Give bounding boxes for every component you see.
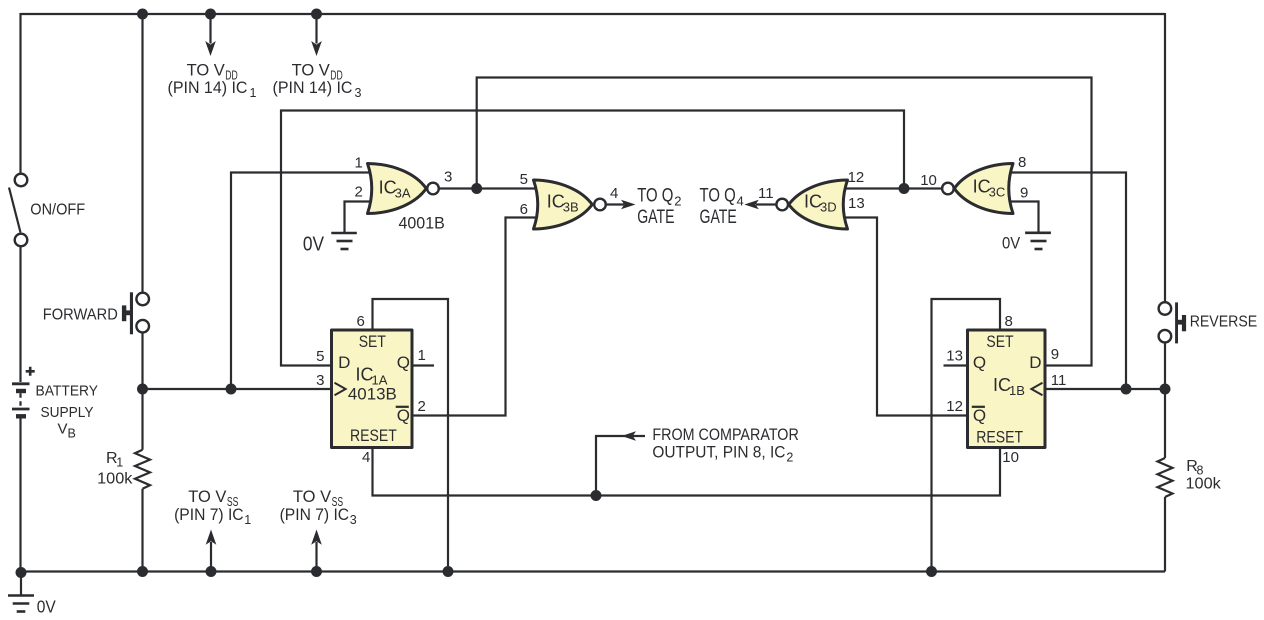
label IC3B [547,192,579,215]
label TO VDD (PIN 14) IC3 [273,60,362,100]
svg-text:1: 1 [418,347,426,364]
ground bottom-left [8,573,34,612]
node IC3C out [899,183,910,194]
svg-text:2: 2 [786,451,793,465]
svg-text:6: 6 [520,201,528,218]
svg-text:3: 3 [444,169,452,186]
wire left rail lower [19,419,21,572]
svg-text:V: V [58,420,68,437]
node clk-B x=1126 [1121,384,1132,395]
wire IC1B Q stub [944,364,969,366]
arrow to Q2 gate [607,200,636,210]
svg-text:TO V: TO V [292,60,331,79]
svg-text:3C: 3C [989,185,1006,200]
wire IC3A out cross line [477,78,1092,366]
label IC3D [804,192,837,215]
svg-text:TO V: TO V [187,60,226,79]
svg-text:Q: Q [397,353,410,372]
wire D-A to cross line [281,111,904,366]
svg-text:2: 2 [674,194,681,209]
svg-text:1: 1 [355,155,363,172]
svg-text:SET: SET [359,332,386,351]
clock triangle IC1B [1031,383,1042,396]
svg-text:4001B: 4001B [399,214,445,233]
svg-text:4: 4 [610,185,618,202]
svg-text:SUPPLY: SUPPLY [41,404,94,421]
svg-text:13: 13 [848,195,865,212]
label TO VSS (PIN 7) IC3 [280,487,357,527]
svg-text:1B: 1B [1009,383,1025,398]
wire forward branch upper [141,14,143,292]
svg-text:RESET: RESET [350,426,397,445]
node clk-A x=142.5 [137,384,148,395]
wire IC1B set pin8 [932,299,1001,572]
svg-text:Q: Q [397,406,410,425]
svg-text:4: 4 [737,194,744,209]
svg-text:D: D [1029,353,1041,372]
label Qbar IC1A [396,406,410,425]
svg-text:Q: Q [973,406,986,425]
wire forward branch lower [141,489,143,572]
svg-text:1: 1 [244,513,251,527]
label FROM COMPARATOR OUTPUT [652,425,798,465]
svg-text:(PIN 7) IC: (PIN 7) IC [280,505,350,524]
arrow from Q4 gate wire [744,200,776,210]
arrow to VSS 2 [311,530,322,572]
wire top rail [21,13,1166,15]
node top rail x=142.5 [137,9,148,20]
svg-text:2: 2 [355,184,363,201]
svg-text:3B: 3B [563,200,579,215]
ground IC3C [1025,233,1051,249]
svg-text:0V: 0V [1002,233,1021,252]
svg-text:RESET: RESET [976,428,1023,447]
svg-text:8: 8 [1018,154,1026,171]
wire IC3D pin13 [844,218,968,416]
wire clk row B [1045,388,1165,390]
wire IC3A out to IC3B [440,187,538,189]
node clk-B x=1165 [1160,384,1171,395]
svg-text:TO V: TO V [188,487,227,506]
op-amp gate IC3B [534,180,593,229]
switch ON/OFF [9,174,27,247]
op-amp gate IC3D [789,180,848,229]
arrow to VDD 2 [311,14,322,56]
battery B1 [12,367,35,417]
bubble IC3D [776,199,788,211]
svg-text:TO Q: TO Q [637,186,673,207]
wire IC3A pin1 [231,173,370,390]
svg-text:10: 10 [920,172,937,189]
node top rail x=316.5 [311,9,322,20]
svg-text:13: 13 [946,347,963,364]
arrow to VDD 1 [205,14,216,56]
bubble IC3C [942,183,954,195]
wire IC1A set pin6 [373,299,449,572]
node bottom rail x=931.5 [926,566,937,577]
svg-text:3A: 3A [395,185,411,200]
label R8 100k [1186,458,1222,493]
svg-text:3: 3 [316,372,324,389]
label IC3A [379,177,411,200]
ground IC3A [331,233,357,249]
flip-flop IC1B body [968,330,1046,448]
svg-text:100k: 100k [1186,476,1222,493]
wire forward branch middle [141,334,143,450]
label Qbar IC1B [972,406,986,425]
svg-text:3: 3 [355,86,362,100]
svg-text:0V: 0V [303,234,325,256]
wire left rail middle [19,247,21,383]
arrow to VSS 1 [206,530,217,572]
label IC1A [356,365,388,388]
wire IC3B pin6 [413,218,537,416]
node bottom rail x=211 [206,566,217,577]
svg-text:100k: 100k [97,471,133,488]
label BATTERY SUPPLY VB [36,383,99,441]
op-amp gate IC3A [368,164,427,214]
wire comparator [596,436,645,496]
wire IC3A pin2 to gnd [345,202,371,234]
svg-text:B: B [68,426,76,440]
flip-flop IC1A body [332,330,413,448]
wire IC3D pin12 to IC3C out [844,187,941,189]
wire left rail upper [19,13,21,173]
svg-text:3D: 3D [820,200,837,215]
svg-text:12: 12 [848,169,865,186]
svg-text:GATE: GATE [700,207,737,228]
svg-text:5: 5 [520,171,528,188]
svg-text:4013B: 4013B [348,385,397,404]
svg-text:9: 9 [1020,185,1028,202]
svg-text:TO Q: TO Q [700,186,736,207]
node bottom rail x=316.5 [311,566,322,577]
op-amp gate IC3C [954,164,1013,214]
wire bottom rail [21,570,1166,572]
svg-text:ON/OFF: ON/OFF [30,201,85,218]
node bottom-left [16,567,27,578]
svg-text:FORWARD: FORWARD [43,307,118,324]
wire right rail upper [1164,13,1166,302]
svg-text:D: D [338,353,350,372]
svg-text:FROM COMPARATOR: FROM COMPARATOR [652,425,798,444]
label TO Q2 GATE [637,186,681,229]
wire IC3C pin9 to gnd [1010,202,1039,234]
svg-text:TO V: TO V [293,487,332,506]
node bottom rail x=142.5 [137,566,148,577]
resistor R8 [1158,458,1173,497]
node clk-A x=231 [226,384,237,395]
clock triangle IC1A [335,383,346,396]
node top rail x=210.5 [205,9,216,20]
svg-text:0V: 0V [37,596,56,616]
svg-text:8: 8 [1005,313,1013,330]
wire IC1A reset pin4 [373,448,1001,496]
svg-text:(PIN 14) IC: (PIN 14) IC [273,78,353,97]
label IC3C [973,177,1006,200]
svg-text:10: 10 [1002,449,1019,466]
pushbutton FORWARD [122,292,149,334]
svg-text:3: 3 [350,513,357,527]
svg-text:11: 11 [758,185,774,202]
label TO Q4 GATE [700,186,744,229]
svg-text:(PIN 7) IC: (PIN 7) IC [174,505,244,524]
svg-text:OUTPUT, PIN 8, IC: OUTPUT, PIN 8, IC [652,443,785,462]
wire clk row A [143,388,334,390]
svg-text:GATE: GATE [637,207,674,228]
svg-text:12: 12 [946,398,963,415]
bubble IC3B [594,199,606,211]
wire right rail lower [1164,497,1166,572]
node comparator [591,490,602,501]
label IC1B [993,375,1025,398]
resistor R1 [135,450,150,489]
wire IC3C pin8 [1010,173,1126,390]
svg-text:(PIN 14) IC: (PIN 14) IC [168,78,248,97]
wire right rail middle [1164,343,1166,459]
svg-text:REVERSE: REVERSE [1190,314,1258,331]
node bottom rail x=448 [443,566,454,577]
bubble IC3A [427,183,439,195]
svg-text:11: 11 [1051,372,1067,389]
svg-text:BATTERY: BATTERY [36,383,99,400]
svg-text:Q: Q [973,353,986,372]
arrow from comparator [622,431,637,441]
svg-text:9: 9 [1051,346,1059,363]
node IC3A out [471,183,482,194]
label TO VSS (PIN 7) IC1 [174,487,251,527]
label TO VDD (PIN 14) IC1 [168,60,257,100]
pushbutton REVERSE [1159,302,1187,343]
label R1 100k [97,450,133,487]
svg-text:5: 5 [316,348,324,365]
svg-text:1: 1 [116,456,123,470]
svg-text:SET: SET [986,332,1013,351]
svg-text:6: 6 [357,313,365,330]
svg-text:2: 2 [418,398,426,415]
wire IC1A Q stub [412,364,434,366]
svg-text:4: 4 [362,449,370,466]
svg-text:1: 1 [250,86,257,100]
